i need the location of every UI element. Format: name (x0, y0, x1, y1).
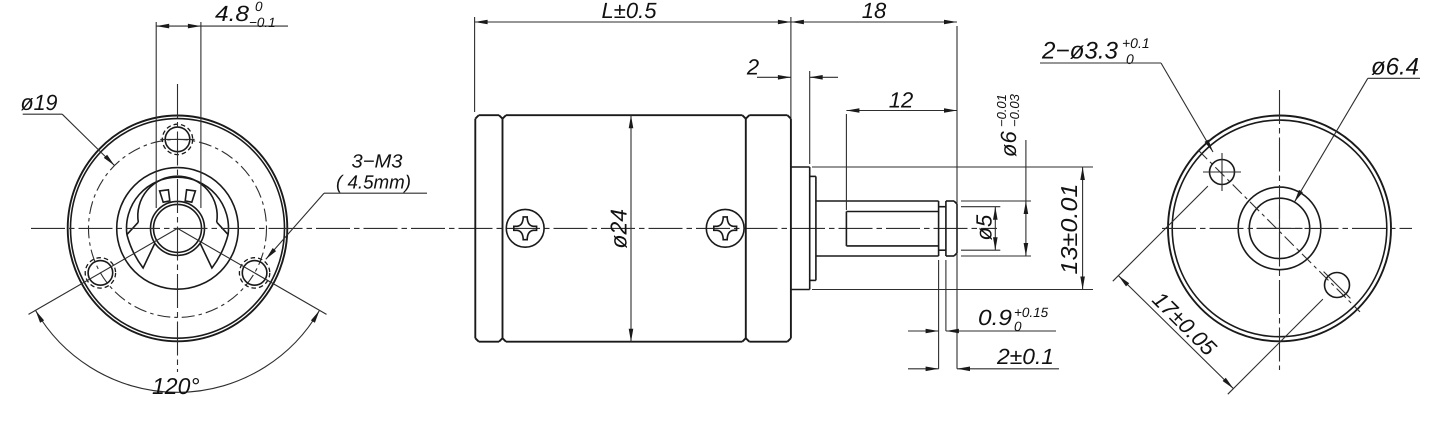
top hole horizontal tick (160, 138, 194, 140)
retaining clip (starlock washer) (127, 176, 229, 268)
label Ø19 with leader (21, 90, 115, 166)
svg-text:13±0.01: 13±0.01 (1056, 184, 1082, 275)
svg-text:ø19: ø19 (21, 90, 58, 115)
front face chamfer circle (71, 119, 285, 339)
front face outer circle (68, 115, 288, 341)
dimension 0.9 +0.15/0 (groove width) (908, 260, 1056, 369)
rear face outer circle (1168, 115, 1391, 341)
washer ring (810, 176, 816, 280)
dimension 17±0.05 (1113, 186, 1323, 394)
svg-text:0: 0 (255, 0, 263, 14)
body right edge (extends up as extension line) (790, 17, 792, 119)
right view: rear end cap (1168, 115, 1391, 341)
svg-text:ø24: ø24 (606, 209, 632, 249)
dimension L±0.5 (475, 0, 791, 112)
phillips screw right (706, 209, 744, 247)
svg-text:−0.03: −0.03 (1007, 93, 1022, 127)
svg-text:+0.1: +0.1 (1122, 35, 1150, 51)
right view vertical centerline (1279, 90, 1281, 370)
shaft end circles (center of left view) (151, 201, 205, 255)
shaft end piece (946, 201, 957, 256)
svg-text:0: 0 (1126, 51, 1134, 67)
diagonal dash-dot axis through holes (1198, 150, 1360, 312)
dimension 2±0.1 (groove to end) (908, 344, 1059, 371)
hole 2-Ø3.3 bottom-right (1325, 273, 1350, 298)
svg-text:ø6: ø6 (996, 131, 1021, 157)
body outline top edge (475, 17, 791, 342)
dimension 4.8 0/-0.1 (156, 0, 288, 208)
svg-text:−0.1: −0.1 (249, 15, 276, 30)
svg-text:0: 0 (1014, 319, 1022, 334)
dimension 2 (boss width) (746, 55, 838, 165)
right view horizontal centerline (1162, 227, 1412, 229)
dimension 13±0.01 (812, 167, 1093, 290)
chamfer corners (475, 115, 479, 119)
label 3-M3 (4.5mm) with leader (266, 152, 427, 260)
rear bore circle Ø6.4 (1249, 198, 1309, 258)
svg-text:L±0.5: L±0.5 (602, 0, 658, 23)
svg-text:ø6.4: ø6.4 (1371, 54, 1419, 81)
gearbox joint line right (745, 119, 747, 339)
front boss circle (117, 168, 239, 290)
svg-text:12: 12 (889, 88, 913, 113)
body left edge (474, 119, 476, 339)
rear boss circle (1238, 187, 1321, 270)
end cap joint line left (502, 119, 504, 339)
radial line to bottom-right hole (178, 228, 327, 314)
rear face chamfer circle (1172, 120, 1387, 337)
label Ø6.4 with leader (1294, 54, 1420, 203)
right view center crosshair (1257, 227, 1303, 229)
radial line to bottom-left hole (29, 228, 178, 314)
svg-text:+0.15: +0.15 (1014, 305, 1049, 320)
svg-text:0.9: 0.9 (978, 305, 1012, 330)
phillips screw left (506, 209, 544, 247)
dimension Ø5 (961, 207, 1000, 251)
joint V-notches (499, 115, 503, 119)
svg-text:4.8: 4.8 (215, 1, 250, 26)
svg-text:3−M3: 3−M3 (352, 152, 403, 173)
bolt circle Ø19 (dash-dot) (89, 139, 267, 317)
shaft end extension line (956, 26, 958, 369)
svg-text:2: 2 (746, 55, 759, 80)
label 2-Ø3.3 +0.1/0 with leader (1040, 35, 1213, 152)
mounting hole bottom-left (M3) (88, 261, 113, 286)
svg-text:( 4.5mm): ( 4.5mm) (336, 173, 411, 194)
main horizontal centerline (left+middle views) (31, 227, 997, 229)
dimension Ø24 (606, 115, 634, 342)
mounting hole bottom-right (M3) (242, 261, 267, 286)
bearing boss rectangle (791, 167, 810, 290)
dimension Ø6 with tolerance (961, 93, 1031, 256)
svg-text:120°: 120° (152, 373, 200, 399)
mounting hole top (M3) (165, 127, 190, 152)
dimension 18 (791, 0, 957, 24)
svg-text:18: 18 (862, 0, 887, 23)
circlip groove (939, 201, 946, 256)
dimension 12 (flat length) (846, 88, 957, 211)
left view: motor front face (68, 115, 288, 341)
svg-text:2±0.1: 2±0.1 (996, 344, 1054, 369)
shaft Ø6 top/bottom lines (816, 201, 939, 256)
svg-text:2−ø3.3: 2−ø3.3 (1041, 38, 1119, 65)
left view vertical centerline (177, 84, 179, 372)
dimension arc 120 deg (36, 310, 320, 399)
shaft flat (milled) lines (846, 212, 938, 246)
body outline bottom edge (479, 341, 499, 343)
hole 2-Ø3.3 top-left (1210, 160, 1235, 185)
svg-text:ø5: ø5 (972, 214, 997, 240)
